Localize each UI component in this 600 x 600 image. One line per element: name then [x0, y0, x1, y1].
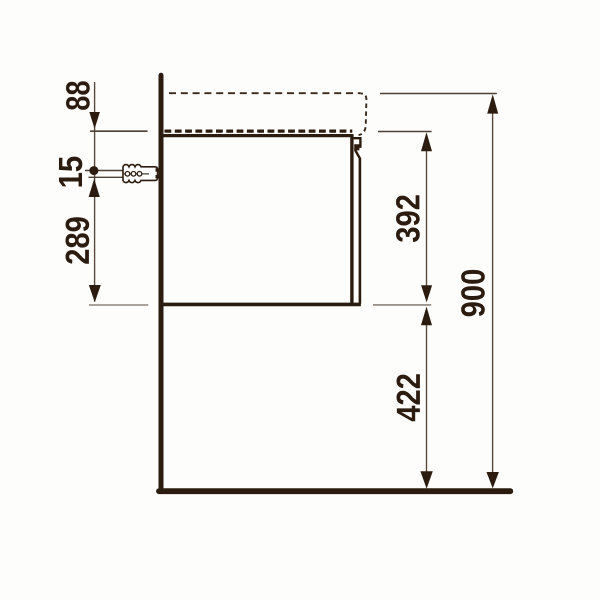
arrow 88 down [89, 112, 100, 129]
label 422 [397, 374, 420, 421]
arrow 392 down [421, 285, 432, 302]
door chamfer [355, 150, 360, 158]
label 289 [66, 217, 90, 264]
washbasin right dashed edge [359, 93, 367, 135]
arrow 900 down [487, 472, 499, 488]
fixing hole line A [85, 170, 149, 172]
arrow 422 up [421, 307, 432, 326]
screw anchor body [123, 165, 158, 183]
door face line [359, 158, 362, 304]
door top profile [353, 138, 360, 146]
cabinet bottom line [163, 303, 361, 307]
fixing hole line B [89, 176, 150, 178]
label 392 [396, 195, 420, 242]
label 15 [59, 157, 82, 187]
label 88 [66, 81, 90, 110]
arrow 392 up [421, 132, 432, 151]
screw center line [124, 173, 150, 175]
392 dimension line upper [426, 151, 428, 286]
fixing hole dot [89, 166, 98, 175]
screw wall marks [156, 168, 160, 171]
422 dimension line [426, 325, 428, 472]
cabinet top thick dashed line [165, 129, 353, 132]
arrow 15 up [89, 179, 100, 197]
floor line [159, 488, 510, 494]
left dimension vertical line [94, 82, 96, 302]
cabinet front edge [350, 134, 353, 304]
door handle block [354, 144, 361, 150]
arrow 422 down [420, 471, 432, 488]
extension line cabinet-top level right [378, 131, 432, 133]
label 900 [461, 270, 485, 316]
extension line cabinet-bottom level right [373, 304, 431, 306]
wall line [159, 75, 164, 491]
washbasin top dashed line [169, 92, 361, 94]
cabinet top line [163, 134, 353, 137]
extension line cabinet-top level left [90, 130, 148, 132]
extension line cabinet-bottom level left [89, 304, 148, 306]
arrow 900 up [487, 94, 498, 113]
extension line washbasin-top level right [380, 93, 497, 95]
screw thread circles [125, 172, 142, 177]
900 dimension line [492, 114, 494, 473]
arrow 289 down [89, 285, 101, 302]
